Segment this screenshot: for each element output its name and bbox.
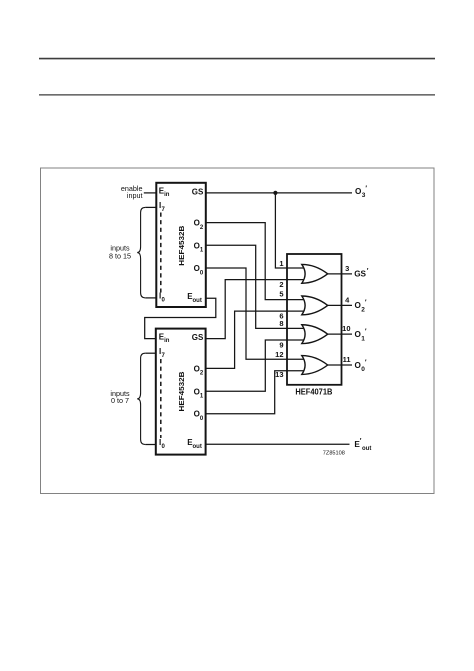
svg-text:O: O <box>194 410 200 419</box>
svg-text:HEF4071B: HEF4071B <box>295 387 332 396</box>
svg-text:O: O <box>194 264 200 273</box>
svg-text:0 to 7: 0 to 7 <box>111 396 129 405</box>
svg-text:13: 13 <box>275 370 283 379</box>
dashed range line U1 I7..I0 <box>160 213 162 293</box>
svg-text:11: 11 <box>343 355 351 364</box>
wire stub U2.I7 <box>145 352 156 354</box>
svg-text:′: ′ <box>365 329 367 336</box>
svg-text:1: 1 <box>361 335 365 342</box>
wire enable input stub to U1.Ein <box>144 192 157 194</box>
svg-text:1: 1 <box>279 259 283 268</box>
svg-text:5: 5 <box>279 290 283 299</box>
svg-text:′: ′ <box>365 186 367 193</box>
wire U1.GS to node O3' <box>206 192 352 194</box>
svg-text:12: 12 <box>275 350 283 359</box>
svg-text:O: O <box>194 241 200 250</box>
OR-gate package U3 HEF4071B body <box>287 254 342 385</box>
svg-text:HEF4532B: HEF4532B <box>177 225 186 266</box>
junction node dot on GS/O3' line <box>273 191 277 195</box>
wire U2.O2 to U3 pin 6 <box>206 311 306 368</box>
svg-text:2: 2 <box>279 280 283 289</box>
wire U3 pin 11 output O0' <box>328 364 352 366</box>
top rule 1 <box>39 58 435 60</box>
svg-text:GS: GS <box>192 187 204 196</box>
dashed range line U2 I7..I0 <box>160 359 162 438</box>
svg-text:′: ′ <box>367 268 369 275</box>
svg-text:′: ′ <box>360 438 362 445</box>
wire U1.O0 to U3 pin 12 <box>206 268 306 359</box>
wire U3 pin 10 output O1' <box>328 333 352 335</box>
or-gate G4 (pins 12,13 -> 11) <box>302 356 328 375</box>
wire U3 pin 3 output GS' <box>328 273 352 275</box>
svg-text:in: in <box>164 192 170 198</box>
wire stub U1.I0 <box>145 297 156 299</box>
wire U3 pin 4 output O2' <box>328 304 352 306</box>
svg-text:4: 4 <box>345 295 350 304</box>
wire U2.Eout to node E'out <box>206 443 350 445</box>
wire stub U2.I0 <box>145 444 156 446</box>
svg-text:8 to 15: 8 to 15 <box>109 252 131 261</box>
wire U1.O2 to U3 pin 5 <box>206 223 306 300</box>
svg-text:′: ′ <box>365 300 367 307</box>
brace inputs 8 to 15 <box>137 207 145 298</box>
wire U1.O1 to U3 pin 8 <box>206 245 306 328</box>
encoder U1 HEF4532B (inputs 8 to 15) body <box>156 183 206 307</box>
svg-text:in: in <box>164 338 170 344</box>
svg-text:out: out <box>362 446 371 452</box>
svg-text:O: O <box>194 387 200 396</box>
svg-text:7Z85108: 7Z85108 <box>323 451 345 457</box>
encoder U2 HEF4532B (inputs 0 to 7) body <box>156 329 206 455</box>
wire U2.GS to U3 pin 2 <box>206 280 306 339</box>
svg-text:0: 0 <box>361 366 365 373</box>
brace inputs 0 to 7 <box>137 353 145 444</box>
wire junction to U3 pin 1 <box>275 193 306 268</box>
or-gate G2 (pins 5,6 -> 4) <box>302 296 328 315</box>
svg-text:′: ′ <box>365 360 367 367</box>
svg-text:GS: GS <box>192 333 204 342</box>
svg-text:GS: GS <box>354 270 366 279</box>
wire U2.O1 to U3 pin 9 <box>206 340 306 391</box>
wire U2.O0 to U3 pin 13 <box>206 371 306 414</box>
figure frame <box>41 168 435 494</box>
svg-text:out: out <box>193 444 202 450</box>
svg-text:3: 3 <box>362 192 366 199</box>
top rule 2 <box>39 94 435 96</box>
svg-text:9: 9 <box>279 340 283 349</box>
svg-text:10: 10 <box>342 324 350 333</box>
svg-text:8: 8 <box>279 319 283 328</box>
svg-text:HEF4532B: HEF4532B <box>177 371 186 412</box>
or-gate G1 (pins 1,2 -> 3) <box>302 264 328 283</box>
or-gate G3 (pins 8,9 -> 10) <box>302 325 328 344</box>
svg-text:3: 3 <box>345 264 349 273</box>
svg-text:O: O <box>194 364 200 373</box>
svg-text:O: O <box>194 219 200 228</box>
wire stub U1.I7 <box>145 206 156 208</box>
svg-text:input: input <box>127 191 143 200</box>
wire U1.Eout to U2.Ein <box>145 298 216 338</box>
svg-text:out: out <box>193 298 202 304</box>
svg-text:2: 2 <box>361 306 365 313</box>
